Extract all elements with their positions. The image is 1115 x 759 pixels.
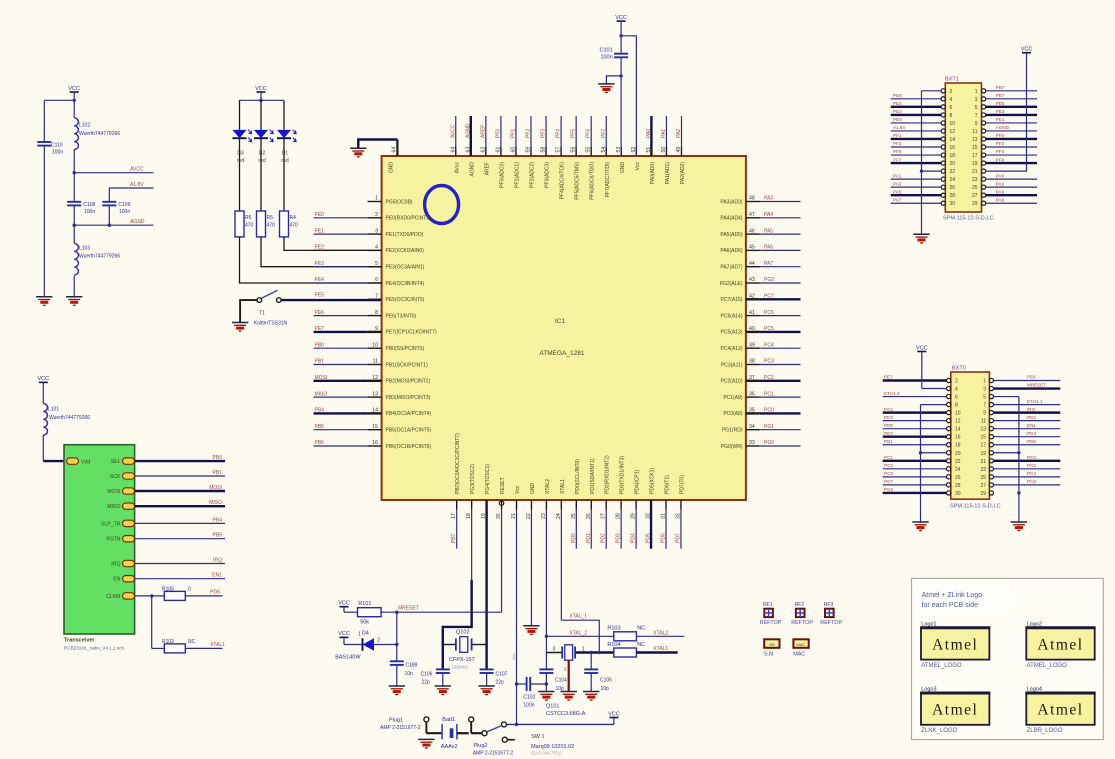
IC pin 56 PF5 (top): [571, 116, 581, 200]
svg-text:PB2(MOSI/PCINT2): PB2(MOSI/PCINT2): [386, 379, 431, 385]
IC pin 11 PB1: [314, 359, 429, 369]
svg-text:47: 47: [749, 212, 755, 218]
svg-text:PC2: PC2: [764, 375, 774, 381]
svg-text:11: 11: [981, 419, 986, 425]
svg-text:7: 7: [983, 403, 986, 409]
svg-text:56: 56: [571, 147, 577, 153]
svg-text:Vcc: Vcc: [511, 653, 516, 660]
wire LED rail: [240, 99, 285, 102]
IC pin 16 PB6: [314, 440, 432, 450]
ground (C106): [435, 686, 451, 695]
ground (Q101 pin2): [561, 692, 577, 701]
svg-text:Atmel + ZLink Logo: Atmel + ZLink Logo: [922, 592, 983, 599]
svg-text:13: 13: [980, 427, 986, 433]
resistor R101: [358, 601, 382, 625]
svg-text:IC1: IC1: [555, 318, 566, 325]
resistor R102: [152, 596, 226, 653]
IC pin 39 PC4: [721, 342, 801, 352]
svg-text:PF3: PF3: [893, 141, 902, 146]
svg-text:PE1: PE1: [996, 117, 1005, 122]
svg-text:A1.8V: A1.8V: [893, 125, 906, 130]
power net VCC (LEDs): [255, 86, 267, 101]
inductor L102: [74, 100, 120, 172]
svg-text:PC7: PC7: [884, 479, 893, 484]
svg-text:Atmel: Atmel: [1037, 702, 1083, 719]
svg-text:NC: NC: [637, 642, 645, 648]
svg-text:PF2: PF2: [996, 141, 1005, 146]
svg-text:PF1: PF1: [893, 133, 902, 138]
svg-text:L101: L101: [48, 407, 59, 413]
svg-text:VCC: VCC: [608, 711, 620, 717]
svg-text:REFTOP: REFTOP: [760, 620, 782, 626]
logo Logo3: [920, 687, 990, 735]
svg-text:11: 11: [373, 359, 378, 365]
power net VCC (module): [37, 376, 49, 403]
BXT0 pin row 10/9: [883, 407, 1061, 417]
svg-text:Plug1: Plug1: [389, 718, 403, 724]
capacitor C107: [480, 645, 508, 687]
svg-text:15: 15: [972, 145, 978, 151]
svg-text:16: 16: [372, 440, 378, 446]
BXT1 pin row 10/9: [891, 117, 1037, 127]
svg-text:17: 17: [972, 153, 978, 159]
svg-text:PF7(ADC7/TDI): PF7(ADC7/TDI): [605, 162, 611, 198]
IC pin 32 PD7 (bottom): [675, 475, 685, 549]
svg-text:44: 44: [749, 261, 755, 267]
svg-text:PE6(T3/INT6): PE6(T3/INT6): [386, 313, 417, 319]
svg-text:PC3(A11): PC3(A11): [721, 362, 743, 368]
IC pin 57 PF4 (top): [556, 116, 566, 199]
svg-text:33: 33: [749, 440, 755, 446]
svg-text:8: 8: [955, 403, 958, 409]
IC pin 13 PB3: [314, 391, 431, 401]
svg-text:GND: GND: [620, 162, 626, 174]
svg-text:RF3: RF3: [824, 602, 834, 608]
svg-text:PA1: PA1: [893, 173, 902, 178]
svg-text:PA6: PA6: [996, 197, 1005, 202]
svg-text:PC4: PC4: [1027, 471, 1036, 476]
BXT1 pin row 22/21: [941, 169, 986, 175]
svg-text:PE1(TXD0/PDO): PE1(TXD0/PDO): [386, 232, 424, 238]
svg-text:PF2(ADC2): PF2(ADC2): [530, 162, 536, 188]
svg-text:D2: D2: [259, 150, 266, 156]
svg-text:PC5: PC5: [764, 326, 774, 332]
svg-text:C107: C107: [496, 671, 508, 677]
resistor R103: [607, 626, 684, 641]
svg-text:PA0: PA0: [996, 173, 1005, 178]
svg-text:MISO: MISO: [209, 500, 222, 506]
svg-text:37: 37: [749, 375, 755, 381]
svg-text:PB1: PB1: [213, 470, 223, 476]
annotation circle (pin1 marker): [425, 186, 459, 224]
svg-text:PB0: PB0: [315, 342, 325, 348]
svg-text:AGND: AGND: [465, 123, 471, 138]
svg-text:PB5: PB5: [213, 533, 223, 539]
svg-text:0: 0: [188, 586, 191, 592]
capacitor C106: [421, 645, 450, 687]
inductor L101: [43, 404, 90, 462]
svg-text:PE2(XCK0/AIN0): PE2(XCK0/AIN0): [386, 248, 425, 254]
power net VCC (BXT0): [916, 345, 946, 388]
svg-text:PE2: PE2: [315, 245, 325, 251]
svg-text:PG2: PG2: [884, 487, 894, 492]
svg-text:Transceiver: Transceiver: [64, 638, 95, 644]
svg-text:MISO: MISO: [315, 391, 328, 397]
svg-text:NC: NC: [188, 639, 196, 645]
svg-text:19: 19: [972, 161, 978, 167]
IC pin 4 PE2: [368, 245, 425, 255]
resonator Q101 CSTCC: [546, 645, 614, 717]
wire GND pin to ground symbol: [358, 140, 397, 149]
svg-text:29: 29: [631, 513, 637, 519]
svg-text:57: 57: [556, 147, 562, 153]
power net VCC (R101): [338, 601, 357, 613]
svg-text:PC5(A13): PC5(A13): [721, 330, 743, 336]
svg-text:EN1: EN1: [1027, 423, 1036, 428]
IC pin 23 XTAL2 (bottom): [541, 479, 551, 653]
svg-text:Marq09 10201.02: Marq09 10201.02: [531, 744, 574, 750]
ground (BXT1): [913, 234, 929, 243]
IC pin 37 PC2: [721, 375, 801, 385]
BXT0 left ground rail: [919, 405, 947, 522]
svg-text:PE1: PE1: [315, 228, 325, 234]
IC pin 17 PB7 (bottom): [451, 433, 461, 549]
svg-text:24: 24: [955, 467, 961, 473]
BXT1 pin row 18/17: [891, 149, 1037, 159]
BXT0 pin row 8/7: [947, 399, 1061, 409]
capacitor C109: [102, 202, 130, 225]
connector BXT1 body: [943, 77, 994, 222]
svg-text:PE7: PE7: [996, 93, 1005, 98]
svg-text:Atmel: Atmel: [932, 637, 978, 654]
svg-text:PC0(A8): PC0(A8): [723, 411, 743, 417]
IC pin 33 PG0: [721, 440, 801, 450]
svg-text:IRQ: IRQ: [1027, 407, 1036, 412]
svg-text:PF1: PF1: [510, 129, 516, 138]
svg-text:PG0: PG0: [764, 440, 774, 446]
svg-text:PA4: PA4: [996, 189, 1005, 194]
svg-text:PB1(SCK/PCINT1): PB1(SCK/PCINT1): [386, 362, 429, 368]
svg-text:PF4: PF4: [996, 149, 1005, 154]
BXT1 pin row 30/29: [891, 197, 1037, 207]
svg-text:22: 22: [955, 459, 961, 465]
svg-text:C109: C109: [118, 202, 130, 208]
svg-text:ATMEGA_1281: ATMEGA_1281: [539, 350, 584, 357]
IC pin 50 PA1 (top): [661, 116, 671, 184]
svg-text:1: 1: [375, 196, 378, 202]
svg-text:PB4(OC2A/PCINT4): PB4(OC2A/PCINT4): [386, 411, 432, 417]
svg-text:PG1: PG1: [884, 407, 894, 412]
svg-text:L103: L103: [79, 245, 90, 251]
wire pin24 jog to XTAL1 node: [561, 614, 599, 653]
svg-text:R104: R104: [607, 642, 620, 648]
BXT1 pin row 8/7: [891, 109, 1037, 119]
svg-text:2: 2: [955, 379, 958, 385]
node AVCC: [73, 167, 154, 175]
BXT1 pin row 14/13: [891, 133, 1037, 143]
svg-text:VCC: VCC: [338, 631, 350, 637]
svg-text:54: 54: [601, 147, 607, 153]
svg-text:25: 25: [980, 475, 986, 481]
svg-text:XTAL1: XTAL1: [560, 479, 566, 494]
svg-text:4: 4: [375, 245, 378, 251]
svg-text:XTAL1: XTAL1: [210, 642, 225, 648]
svg-text:MRESET: MRESET: [398, 605, 419, 611]
svg-text:18: 18: [950, 153, 956, 159]
svg-text:PD6: PD6: [661, 533, 667, 543]
svg-text:RF1: RF1: [763, 602, 773, 608]
svg-text:28: 28: [950, 193, 956, 199]
svg-text:2: 2: [950, 89, 953, 95]
svg-text:41: 41: [749, 310, 755, 316]
svg-text:PC6: PC6: [1027, 479, 1036, 484]
svg-text:30: 30: [950, 201, 956, 207]
IC pin 55 PF6 (top): [586, 116, 596, 200]
svg-text:45: 45: [749, 245, 755, 251]
svg-text:PC2(A10): PC2(A10): [721, 379, 743, 385]
svg-text:PF6: PF6: [996, 157, 1005, 162]
svg-text:NC: NC: [637, 626, 645, 632]
svg-text:T1: T1: [259, 311, 265, 317]
inductor L103: [74, 225, 120, 297]
svg-text:red: red: [237, 158, 244, 164]
svg-text:CSTCC3.68G-A: CSTCC3.68G-A: [546, 711, 586, 717]
svg-text:10: 10: [950, 121, 956, 127]
wire VCC junction to C110 branch: [44, 99, 76, 142]
power net VCC (top-left): [68, 86, 80, 101]
svg-text:21: 21: [980, 459, 986, 465]
resistor R104: [607, 642, 677, 657]
svg-text:10p: 10p: [556, 686, 565, 692]
svg-text:D3: D3: [237, 150, 244, 156]
svg-text:3: 3: [975, 97, 978, 103]
IC pin 26 PD1 (bottom): [586, 458, 596, 549]
logo frame: [912, 578, 1104, 739]
LED D3: [233, 100, 252, 211]
IC pin 22 GND (bottom): [526, 483, 536, 626]
svg-text:BXT0: BXT0: [952, 366, 966, 372]
svg-text:EN: EN: [113, 577, 120, 583]
BXT0 right rail: [994, 397, 1021, 522]
plug Plug2: [469, 717, 514, 757]
svg-text:AMP 2-2151677-2: AMP 2-2151677-2: [380, 725, 421, 731]
ground (T1): [232, 323, 248, 332]
svg-text:CLKM: CLKM: [106, 594, 120, 600]
IC pin 52 Vcc (top): [631, 147, 641, 171]
svg-text:PC6: PC6: [764, 310, 774, 316]
svg-text:XTAL_2: XTAL_2: [569, 630, 587, 636]
svg-text:63: 63: [465, 147, 471, 153]
svg-text:PF6: PF6: [586, 129, 592, 138]
svg-text:61: 61: [495, 147, 501, 153]
IC pin 10 PB0: [314, 342, 425, 352]
svg-text:12: 12: [950, 129, 956, 135]
svg-text:C101: C101: [600, 48, 613, 54]
svg-text:1: 1: [983, 379, 986, 385]
svg-text:16: 16: [950, 145, 956, 151]
svg-text:PE7: PE7: [884, 375, 893, 380]
BXT0 pin row 28/27: [883, 479, 1061, 489]
svg-text:15: 15: [980, 435, 986, 441]
svg-text:PD3: PD3: [616, 533, 622, 543]
svg-text:PA4(AD4): PA4(AD4): [720, 216, 742, 222]
IC pin 25 PD0 (bottom): [571, 459, 581, 549]
svg-text:PF7: PF7: [893, 157, 902, 162]
svg-text:10: 10: [955, 411, 961, 417]
BXT0 pin row 2/1: [883, 375, 1061, 385]
wire R6 to IC: [240, 237, 382, 283]
svg-text:PD5: PD5: [884, 423, 893, 428]
svg-text:7: 7: [375, 294, 378, 300]
svg-text:BAS140W: BAS140W: [335, 654, 361, 660]
IC pin 27 PD2 (bottom): [601, 455, 611, 549]
svg-text:GND: GND: [530, 483, 536, 495]
svg-text:PG2: PG2: [764, 277, 774, 283]
net label PE5 (pin7): [315, 293, 325, 299]
svg-text:AAAx2: AAAx2: [441, 744, 458, 750]
svg-text:PE7(ICP1/CLKO/INT7): PE7(ICP1/CLKO/INT7): [386, 330, 437, 336]
svg-text:R103: R103: [607, 626, 620, 632]
svg-text:22: 22: [950, 169, 956, 175]
svg-text:SLP_TR: SLP_TR: [101, 521, 121, 527]
svg-text:25: 25: [972, 185, 978, 191]
svg-text:18: 18: [955, 443, 961, 449]
capacitor C108: [67, 173, 95, 226]
svg-text:18: 18: [466, 513, 472, 519]
node AGND: [73, 219, 154, 227]
svg-text:20: 20: [496, 513, 502, 519]
svg-text:49: 49: [676, 147, 682, 153]
svg-text:MAC: MAC: [797, 642, 806, 647]
svg-text:43: 43: [749, 277, 755, 283]
svg-text:30: 30: [646, 513, 652, 519]
svg-text:PD0: PD0: [571, 533, 577, 543]
svg-text:Vcc: Vcc: [515, 485, 521, 494]
IC U1 ATMEGA_1281 body: [382, 156, 746, 500]
svg-text:ATMEL_LOGO: ATMEL_LOGO: [921, 663, 962, 669]
svg-text:20: 20: [950, 161, 956, 167]
svg-text:Wuerth744779266: Wuerth744779266: [49, 415, 90, 421]
BXT1 pin row 12/11: [891, 125, 1037, 135]
LED D1: [277, 100, 296, 211]
svg-text:PC3: PC3: [764, 359, 774, 365]
svg-text:2: 2: [375, 212, 378, 218]
svg-text:21: 21: [972, 169, 978, 175]
svg-text:PA0: PA0: [646, 129, 652, 138]
IC pin 3 PE1: [314, 228, 424, 238]
IC pin 21 Vcc (bottom): [511, 485, 521, 724]
svg-text:11: 11: [972, 129, 977, 135]
svg-text:PC7(A15): PC7(A15): [721, 297, 743, 303]
svg-text:PA3: PA3: [893, 181, 902, 186]
svg-text:PD3(TXD1/INT3): PD3(TXD1/INT3): [620, 456, 626, 494]
svg-text:PG1(RD): PG1(RD): [722, 428, 743, 434]
svg-text:AVCC: AVCC: [450, 124, 456, 138]
svg-text:PE6: PE6: [315, 310, 325, 316]
svg-text:42: 42: [749, 294, 755, 300]
svg-text:C108: C108: [83, 202, 95, 208]
IC pin 9 PE7: [314, 326, 437, 336]
svg-text:28: 28: [616, 513, 622, 519]
BXT0 pin row 20/19: [947, 451, 994, 457]
svg-text:red: red: [258, 158, 265, 164]
BXT0 pin row 16/15: [883, 431, 1061, 441]
crystal Q102 CFPX-157: [443, 630, 487, 670]
switch T1: [254, 290, 288, 326]
wire T1 to IC pin7: [281, 299, 381, 301]
svg-text:RCB231X1_radio_V4.1.1.sch: RCB231X1_radio_V4.1.1.sch: [64, 646, 124, 651]
IC pin 19 PG4 (bottom): [481, 464, 491, 645]
svg-text:PE4(OC3B/INT4): PE4(OC3B/INT4): [386, 281, 425, 287]
svg-text:22p: 22p: [496, 680, 505, 686]
svg-text:26: 26: [955, 475, 961, 481]
IC pin 7 PE5: [368, 294, 425, 304]
module pin MOSI: [107, 485, 225, 495]
svg-text:PF0: PF0: [495, 129, 501, 138]
svg-text:PA7: PA7: [764, 261, 773, 267]
power net VCC (D4): [338, 631, 361, 644]
label S.N: [764, 639, 780, 657]
svg-text:59: 59: [526, 147, 532, 153]
label MAC: [793, 639, 809, 657]
svg-text:SN: SN: [769, 642, 775, 647]
svg-text:30: 30: [955, 491, 961, 497]
fiducial RF1 REFTOP: [760, 602, 782, 626]
IC pin 64 AVcc (top): [450, 116, 460, 173]
svg-text:Atmel: Atmel: [1037, 637, 1083, 654]
IC pin 38 PC3: [721, 359, 801, 369]
BXT0 pin row 24/23: [883, 463, 1061, 473]
svg-text:PF5: PF5: [571, 129, 577, 138]
svg-text:3: 3: [553, 647, 556, 653]
svg-text:PD6: PD6: [1027, 439, 1036, 444]
svg-text:MAC: MAC: [793, 651, 805, 657]
svg-text:50: 50: [661, 147, 667, 153]
svg-text:PB1: PB1: [884, 439, 893, 444]
svg-text:SPM-115-12-S-D-LC: SPM-115-12-S-D-LC: [943, 216, 994, 222]
svg-text:50k: 50k: [360, 619, 369, 625]
svg-text:C102: C102: [523, 695, 535, 701]
ground (IC pin22): [523, 626, 539, 635]
svg-text:12: 12: [372, 375, 378, 381]
svg-text:PE5: PE5: [996, 101, 1005, 106]
svg-text:PF2: PF2: [526, 129, 532, 138]
net label (Vcc column): [511, 653, 516, 660]
svg-text:5: 5: [975, 105, 978, 111]
svg-text:MRESET: MRESET: [1027, 383, 1046, 388]
svg-text:PC7: PC7: [764, 294, 774, 300]
svg-text:58: 58: [541, 147, 547, 153]
svg-text:16: 16: [955, 435, 961, 441]
svg-text:PC4(A12): PC4(A12): [721, 346, 743, 352]
svg-text:470: 470: [290, 223, 299, 229]
wire VCC to pin52: [619, 34, 636, 156]
net label PE2 (pin4): [314, 245, 368, 251]
svg-text:22p: 22p: [422, 680, 431, 686]
svg-text:AGND: AGND: [469, 162, 475, 177]
svg-text:PA3(AD3): PA3(AD3): [720, 199, 742, 205]
svg-text:26: 26: [586, 513, 592, 519]
svg-text:XTAL2: XTAL2: [653, 630, 668, 636]
BXT1 pin row 26/25: [891, 181, 1037, 191]
module pin RSTN: [106, 533, 225, 543]
svg-text:MOSI: MOSI: [209, 485, 222, 491]
BXT0 pin row 14/13: [883, 423, 1061, 433]
svg-text:ETH1.2: ETH1.2: [884, 391, 900, 396]
svg-text:L102: L102: [79, 122, 90, 128]
svg-text:1: 1: [582, 647, 585, 653]
module pin CLKM: [106, 593, 134, 600]
